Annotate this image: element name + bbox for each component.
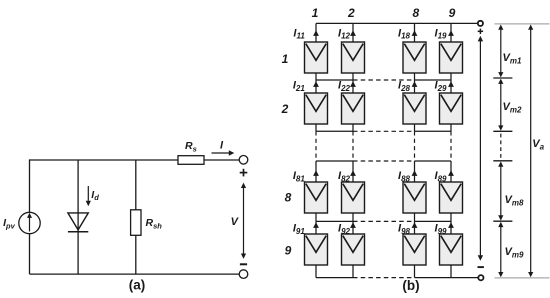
wire: row8/row9 connector dashed continuation: [353, 220, 415, 222]
wire: module M28 top stub: [414, 80, 416, 93]
PV module M91: [305, 234, 328, 265]
current arrow I82: [350, 170, 356, 176]
wire: row8/row9 connector right segment: [415, 220, 452, 222]
current arrow I19: [448, 30, 454, 36]
plus sign: [240, 172, 248, 174]
PV module M21: [305, 93, 328, 124]
wire: row8 upper connector right segment: [415, 160, 452, 162]
wire: bottom bus (-) to terminal: [415, 277, 479, 279]
terminal node: - output: [239, 270, 248, 279]
wire: module M82 top stub: [352, 161, 354, 182]
svg-text:(b): (b): [402, 278, 419, 293]
current arrow I91: [313, 222, 319, 228]
wire: module M88 bottom stub: [414, 213, 416, 221]
wire: module M19 bottom stub: [450, 73, 452, 80]
current arrow I88: [412, 170, 418, 176]
wire: module M12 top stub: [352, 23, 354, 42]
current arrow I92: [350, 222, 356, 228]
current arrow I81: [313, 170, 319, 176]
wire: module M19 top stub: [450, 23, 452, 42]
wire: module M11 bottom stub: [315, 73, 317, 80]
svg-text:8: 8: [285, 190, 292, 204]
voltage arrow Vm9: [500, 225, 502, 275]
wire: shunt branch lower: [135, 235, 137, 274]
wire: module M18 top stub: [414, 23, 416, 42]
PV module M11: [305, 42, 328, 73]
diode D triangle: [68, 213, 88, 230]
terminal node: + output: [239, 156, 248, 165]
array output arrow (vertical, double headed): [479, 40, 481, 258]
wire: module M89 bottom stub: [450, 213, 452, 221]
wire: column 8 dashed continuation: [414, 131, 416, 161]
wire: module M92 bottom stub: [352, 265, 354, 278]
current arrow I18: [412, 30, 418, 36]
tick mark Vm1/Vm2: [493, 77, 512, 79]
voltage arrow Vm1: [500, 27, 502, 74]
current arrow I98: [412, 222, 418, 228]
wire: bottom bus dashed continuation: [353, 277, 415, 279]
voltage arrow V (double headed): [243, 187, 245, 256]
arrow I (output current, right): [212, 152, 230, 154]
wire: module M92 top stub: [352, 221, 354, 234]
wire: module M21 top stub: [315, 80, 317, 93]
wire: module M81 top stub: [315, 161, 317, 182]
minus sign (array): [478, 266, 484, 268]
wire: module M82 bottom stub: [352, 213, 354, 221]
wire: module M22 top stub: [352, 80, 354, 93]
current arrow I29: [448, 81, 454, 87]
tick mark Vm8/Vm9: [493, 220, 512, 222]
wire: top bus (+): [316, 22, 478, 24]
tick mark Vm2/dashed: [493, 130, 512, 132]
svg-text:8: 8: [412, 6, 419, 20]
wire: bottom return wire: [30, 273, 240, 275]
svg-text:1: 1: [282, 52, 289, 66]
wire: row2 lower connector dashed continuation: [353, 130, 415, 132]
wire: row8 upper connector dashed continuation: [353, 160, 415, 162]
wire: module M91 top stub: [315, 221, 317, 234]
svg-text:9: 9: [285, 243, 292, 257]
PV module M29: [440, 93, 463, 124]
wire: module M99 bottom stub: [450, 265, 452, 278]
current arrow I89: [448, 170, 454, 176]
PV module M22: [342, 93, 365, 124]
tick mark dashed/Vm8: [493, 160, 512, 162]
wire: module M18 bottom stub: [414, 73, 416, 80]
wire: module M28 bottom stub: [414, 124, 416, 131]
wire: diode branch: [77, 160, 79, 274]
wire: column 2 dashed continuation: [352, 131, 354, 161]
extension line bottom (gray): [495, 277, 550, 279]
wire: row1/row2 connector dashed continuation: [353, 79, 415, 81]
PV module M92: [342, 234, 365, 265]
svg-text:2: 2: [281, 102, 289, 116]
voltage arrow Va: [530, 27, 532, 274]
svg-text:(a): (a): [129, 278, 146, 293]
wire: row1/row2 connector left segment: [316, 79, 353, 81]
current source arrow (up): [29, 218, 31, 232]
PV module M89: [440, 182, 463, 213]
extension line top (gray): [495, 23, 550, 25]
wire: top horizontal node from current source to Rs: [30, 159, 179, 161]
wire: module M22 bottom stub: [352, 124, 354, 131]
resistor Rs body: [178, 156, 204, 165]
wire: Rs right terminal to output + terminal: [204, 159, 239, 161]
svg-text:9: 9: [449, 6, 456, 20]
PV module M28: [403, 93, 426, 124]
wire: row1/row2 connector right segment: [415, 79, 452, 81]
voltage arrow Vm2: [500, 81, 502, 128]
wire: module M21 bottom stub: [315, 124, 317, 131]
svg-text:2: 2: [347, 6, 355, 20]
wire: module M11 top stub: [315, 23, 317, 42]
PV module M81: [305, 182, 328, 213]
wire: module M29 bottom stub: [450, 124, 452, 131]
PV module M99: [440, 234, 463, 265]
PV module M12: [342, 42, 365, 73]
wire: Vm dashed continuation: [500, 134, 502, 159]
wire: module M91 bottom stub: [315, 265, 317, 278]
wire: column 9 dashed continuation: [450, 131, 452, 161]
wire: row8 upper connector left segment: [316, 160, 353, 162]
wire: module M29 top stub: [450, 80, 452, 93]
minus sign: [240, 263, 247, 265]
wire: module M98 bottom stub: [414, 265, 416, 278]
terminal node: array -: [478, 275, 483, 280]
wire: module M12 bottom stub: [352, 73, 354, 80]
svg-text:1: 1: [312, 6, 319, 20]
wire: shunt branch upper: [135, 160, 137, 210]
wire: module M81 bottom stub: [315, 213, 317, 221]
wire: left branch upper segment: [29, 159, 31, 212]
wire: module M98 top stub: [414, 221, 416, 234]
wire: module M89 top stub: [450, 161, 452, 182]
resistor Rsh body: [131, 210, 141, 236]
current arrow I21: [313, 81, 319, 87]
current arrow I11: [313, 30, 319, 36]
arrow Id (down): [87, 186, 89, 201]
PV module M88: [403, 182, 426, 213]
PV module M82: [342, 182, 365, 213]
wire: module M99 top stub: [450, 221, 452, 234]
voltage arrow Vm8: [500, 164, 502, 218]
current arrow I22: [350, 81, 356, 87]
wire: column 1 dashed continuation: [315, 131, 317, 161]
PV module M19: [440, 42, 463, 73]
wire: row2 lower connector left segment: [316, 130, 353, 132]
current arrow I12: [350, 30, 356, 36]
wire: left branch lower segment: [29, 234, 31, 274]
terminal node: array +: [478, 21, 483, 26]
wire: module M88 top stub: [414, 161, 416, 182]
diode cathode bar: [68, 231, 88, 233]
wire: row8/row9 connector left segment: [316, 220, 353, 222]
wire: row2 lower connector right segment: [415, 130, 452, 132]
current arrow I99: [448, 222, 454, 228]
PV module M18: [403, 42, 426, 73]
wire: bottom bus (-) left segment: [316, 277, 353, 279]
PV module M98: [403, 234, 426, 265]
current arrow I28: [412, 81, 418, 87]
plus sign (array): [478, 30, 483, 32]
current source Ipv circle: [19, 212, 40, 233]
